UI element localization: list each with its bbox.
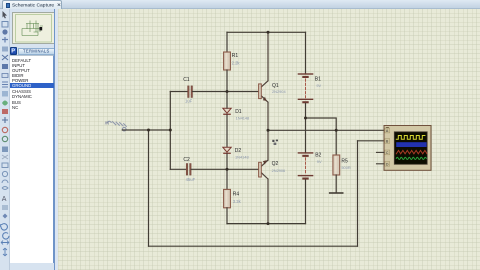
- wire scope channel B riser: [357, 141, 359, 246]
- junction R1 / D1 / Q1 base: [226, 90, 229, 93]
- pin C stub wire: [377, 151, 385, 153]
- wire R5 top lead: [335, 130, 337, 155]
- battery B1: [298, 73, 314, 103]
- junction R5 top node: [335, 129, 338, 132]
- svg-text:C: C: [386, 151, 389, 155]
- capacitor C2: [186, 164, 191, 176]
- wire B1 minus to B2 plus: [305, 104, 307, 153]
- svg-text:B2: B2: [315, 152, 321, 158]
- svg-text:2N2904: 2N2904: [272, 89, 286, 94]
- resistor R1: [224, 52, 231, 70]
- wire coupling column C1-C2: [169, 92, 171, 170]
- wire R5 bottom lead: [335, 175, 337, 192]
- pin A pad: [385, 128, 390, 133]
- oscilloscope U1 body: [384, 126, 431, 171]
- wire bottom return rail: [149, 245, 358, 247]
- wire C2 left lead: [170, 168, 186, 170]
- wire R4 bottom lead: [226, 208, 228, 224]
- resistor R4: [224, 189, 231, 207]
- svg-text:500R: 500R: [341, 165, 350, 170]
- svg-text:R1: R1: [232, 53, 239, 59]
- junction top rail / Q1 collector: [267, 31, 270, 34]
- left mode toolbar: [0, 9, 10, 270]
- svg-text:C2: C2: [183, 157, 190, 163]
- wire R1 bottom lead: [226, 70, 228, 92]
- svg-text:R5: R5: [341, 159, 348, 165]
- pin C pad: [385, 150, 390, 155]
- svg-text:3.3k: 3.3k: [233, 199, 242, 204]
- trace channel D green sine: [396, 157, 426, 159]
- svg-text:1N4148: 1N4148: [236, 116, 250, 121]
- svg-text:2N2906: 2N2906: [272, 168, 286, 173]
- svg-text:D1: D1: [235, 109, 242, 115]
- junction input tee: [169, 129, 172, 132]
- transistor Q1: [259, 32, 268, 130]
- wire C1 left lead from tee: [170, 91, 187, 93]
- junction Q2 emitter bottom node: [267, 222, 270, 225]
- svg-text:9V: 9V: [317, 159, 322, 164]
- wire R1 top lead: [226, 32, 228, 52]
- svg-text:2.2k: 2.2k: [232, 60, 241, 65]
- wire left return drop: [148, 130, 150, 246]
- junction input / return drop: [147, 129, 150, 132]
- junction D2 / R4 / Q2 base: [226, 168, 229, 171]
- trace channel B blue band: [396, 142, 426, 147]
- diode D2: [223, 147, 231, 154]
- object selector list: [10, 55, 54, 263]
- wire battery midpoint link: [306, 118, 337, 130]
- svg-text:C1: C1: [183, 77, 190, 83]
- capacitor C1: [188, 86, 193, 98]
- wire to scope channel B: [358, 140, 385, 142]
- junction emitter output node: [267, 129, 270, 132]
- wire B column top: [305, 32, 307, 73]
- transistor Q2: [259, 130, 268, 223]
- trace channel A yellow square wave: [396, 136, 425, 140]
- wire top supply rail: [227, 31, 306, 33]
- resistor R5: [333, 155, 340, 175]
- battery B2: [298, 152, 314, 179]
- svg-text:D2: D2: [235, 148, 242, 154]
- svg-text:1N4148: 1N4148: [235, 154, 249, 159]
- wire input to tee: [122, 129, 170, 131]
- svg-text:Q2: Q2: [272, 161, 279, 167]
- minimap overview: [12, 12, 55, 44]
- generator input marker: [107, 121, 126, 131]
- wire D-column upper: [226, 92, 228, 148]
- svg-text:R4: R4: [233, 192, 240, 198]
- P button + selector header: [10, 46, 58, 56]
- wire output rail to scope channel A: [268, 129, 384, 131]
- cursor marker: [272, 140, 278, 145]
- svg-text:1uF: 1uF: [185, 99, 193, 104]
- ground terminal: [330, 192, 343, 194]
- wire D-column lower: [226, 154, 228, 190]
- pin B pad: [385, 139, 390, 144]
- window tab bar: [0, 0, 480, 9]
- diode D1: [223, 108, 231, 115]
- wire Q2 collector line: [227, 223, 306, 225]
- wire B2 bottom lead: [305, 180, 307, 224]
- svg-text:45uF: 45uF: [186, 177, 196, 182]
- pin D stub wire: [377, 163, 385, 165]
- svg-text:A: A: [2, 196, 7, 203]
- svg-text:B1: B1: [315, 76, 321, 82]
- svg-text:IN: IN: [105, 121, 110, 126]
- wire C2 to Q2 base: [191, 168, 259, 170]
- oscilloscope screen: [394, 132, 427, 165]
- wire C1 to Q1 base: [193, 91, 259, 93]
- junction B1 minus midpoint: [304, 117, 307, 120]
- pin D pad: [385, 161, 390, 166]
- trace channel C red sawtooth: [396, 150, 427, 153]
- svg-text:D: D: [386, 162, 389, 166]
- svg-text:9V: 9V: [316, 83, 321, 88]
